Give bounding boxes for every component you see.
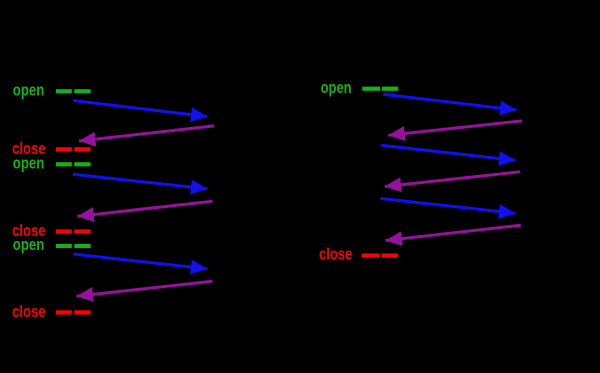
arrow request 3 (right, blue) bbox=[380, 198, 515, 213]
arrow request 1 (left, blue) bbox=[73, 101, 207, 117]
arrow reply 1 (left, purple) bbox=[79, 126, 214, 141]
arrow request 1 (right, blue) bbox=[383, 94, 517, 110]
arrow request 2 (right, blue) bbox=[381, 145, 515, 160]
svg-text:close: close bbox=[12, 302, 46, 321]
arrow reply 3 (left, purple) bbox=[77, 281, 213, 296]
tick close 1 (left column) bbox=[56, 147, 91, 151]
svg-text:open: open bbox=[321, 78, 352, 97]
tick close (right column) bbox=[362, 254, 398, 258]
svg-text:open: open bbox=[13, 80, 45, 99]
tick open 1 (left column) bbox=[56, 89, 91, 93]
arrow reply 2 (right, purple) bbox=[385, 172, 520, 187]
arrow reply 3 (right, purple) bbox=[386, 225, 521, 240]
arrow reply 2 (left, purple) bbox=[77, 201, 212, 216]
tick close 3 (left column) bbox=[56, 310, 91, 314]
tick open (right column) bbox=[362, 87, 398, 91]
arrow reply 1 (right, purple) bbox=[388, 121, 522, 135]
tick open 3 (left column) bbox=[56, 244, 91, 248]
tick close 2 (left column) bbox=[56, 229, 91, 233]
arrow request 3 (left, blue) bbox=[73, 254, 207, 269]
svg-text:open: open bbox=[13, 153, 45, 172]
svg-text:close: close bbox=[319, 244, 352, 263]
tick open 2 (left column) bbox=[56, 162, 91, 166]
svg-text:open: open bbox=[13, 235, 45, 254]
arrow request 2 (left, blue) bbox=[73, 174, 208, 189]
